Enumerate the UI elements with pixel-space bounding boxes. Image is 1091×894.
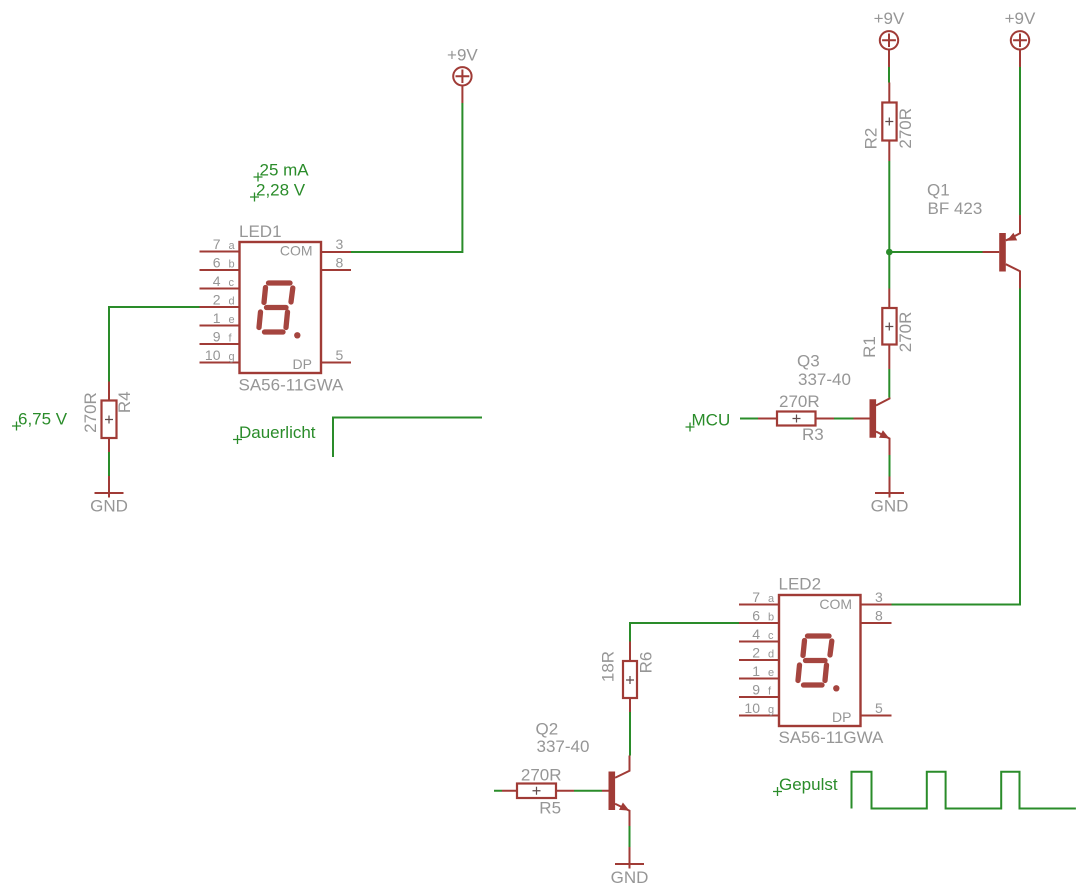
wire R1 to Q3 collector: [888, 369, 890, 398]
svg-text:270R: 270R: [896, 108, 915, 149]
wire Q3 emitter to GND: [889, 455, 891, 477]
svg-text:GND: GND: [611, 868, 649, 887]
svg-text:R1: R1: [860, 336, 879, 358]
svg-text:e: e: [229, 314, 235, 326]
wire R3 to Q3 base: [834, 418, 854, 420]
LED1 pin labels: [205, 236, 344, 363]
svg-text:2: 2: [752, 644, 760, 660]
svg-text:25 mA: 25 mA: [260, 161, 310, 180]
wire LED2 pin b to R6: [630, 623, 739, 642]
svg-text:5: 5: [336, 347, 344, 363]
svg-text:R3: R3: [802, 425, 824, 444]
svg-text:337-40: 337-40: [537, 737, 590, 756]
transistor Q3 337-40 NPN: [797, 352, 890, 456]
svg-text:R6: R6: [637, 652, 656, 674]
svg-text:c: c: [229, 277, 235, 289]
svg-text:R4: R4: [115, 391, 134, 413]
svg-text:18R: 18R: [598, 651, 617, 682]
supply +9V P3 (above Q1): [1011, 31, 1029, 67]
svg-text:2: 2: [213, 291, 221, 307]
wire +9V to Q1 emitter: [1019, 67, 1021, 215]
supply +9V P1 (top left): [453, 67, 471, 103]
svg-text:1: 1: [752, 663, 760, 679]
svg-text:COM: COM: [280, 243, 313, 259]
svg-text:6: 6: [213, 254, 221, 270]
svg-text:R5: R5: [539, 798, 561, 817]
svg-text:7: 7: [752, 589, 760, 605]
svg-text:+9V: +9V: [447, 46, 478, 65]
svg-text:b: b: [768, 611, 774, 623]
svg-text:BF 423: BF 423: [928, 199, 983, 218]
LED2 pin stubs left: [739, 605, 779, 716]
svg-text:DP: DP: [832, 709, 851, 725]
svg-text:Gepulst: Gepulst: [779, 775, 838, 794]
7-seg display LED1: [239, 222, 345, 395]
resistor R5: [494, 765, 574, 817]
LED1 decimal point: [294, 332, 300, 338]
svg-text:g: g: [229, 351, 235, 363]
svg-text:SA56-11GWA: SA56-11GWA: [779, 728, 885, 747]
svg-text:GND: GND: [90, 497, 128, 516]
svg-text:b: b: [229, 258, 235, 270]
wire R5 to Q2 base: [574, 790, 602, 792]
waveform constant: [333, 418, 482, 458]
svg-text:6: 6: [752, 607, 760, 623]
svg-text:c: c: [768, 630, 774, 642]
wire R4 to GND: [108, 452, 110, 476]
svg-text:1: 1: [213, 310, 221, 326]
svg-text:270R: 270R: [896, 312, 915, 353]
resistor R1: [860, 289, 915, 370]
wire Q2 emitter to GND: [629, 826, 631, 847]
LED2 decimal point: [833, 685, 839, 691]
junction: [886, 249, 893, 256]
svg-text:GND: GND: [871, 497, 909, 516]
svg-text:3: 3: [875, 589, 883, 605]
resistor R4: [81, 382, 134, 453]
svg-text:270R: 270R: [521, 765, 562, 784]
ground GND (Q2): [611, 847, 649, 887]
ground GND (Q3): [871, 477, 909, 516]
LED2 pin labels: [744, 589, 883, 716]
svg-text:5: 5: [875, 700, 883, 716]
svg-text:8: 8: [875, 608, 883, 624]
svg-text:7: 7: [213, 236, 221, 252]
7-seg display LED2: [779, 575, 885, 748]
svg-text:2,28 V: 2,28 V: [256, 181, 306, 200]
svg-text:+9V: +9V: [874, 9, 905, 28]
transistor Q2 337-40 NPN: [536, 720, 630, 827]
svg-text:a: a: [229, 240, 236, 252]
ground GND (R4): [90, 476, 128, 516]
svg-text:Q2: Q2: [536, 720, 559, 739]
svg-text:270R: 270R: [779, 392, 820, 411]
svg-text:9: 9: [752, 681, 760, 697]
supply +9V P2 (above R2): [880, 31, 898, 67]
svg-text:8: 8: [336, 255, 344, 271]
svg-text:9: 9: [213, 328, 221, 344]
svg-text:d: d: [229, 295, 235, 307]
LED2 digit 8: [798, 636, 832, 685]
svg-text:4: 4: [213, 273, 221, 289]
wire Q1 collector to LED2 COM: [892, 289, 1021, 605]
wire junction to Q1 base: [889, 251, 982, 253]
transistor Q1 BF423 PNP: [927, 181, 1020, 289]
LED2 pin stubs right: [861, 605, 892, 716]
wire R2 to junction to R1: [888, 161, 890, 289]
LED1 pin stubs left: [200, 252, 240, 363]
svg-text:3: 3: [336, 236, 344, 252]
svg-text:10: 10: [205, 347, 221, 363]
wire +9V to R2: [888, 67, 890, 83]
svg-text:g: g: [768, 704, 774, 716]
LED1 digit 8: [259, 283, 293, 332]
svg-text:6,75 V: 6,75 V: [18, 410, 68, 429]
svg-text:Q3: Q3: [797, 352, 820, 371]
svg-text:4: 4: [752, 626, 760, 642]
svg-text:Q1: Q1: [927, 181, 950, 200]
wire MCU to R3: [740, 418, 758, 420]
wire LED1 pin d to R4: [109, 307, 200, 382]
svg-text:337-40: 337-40: [798, 370, 851, 389]
svg-text:+9V: +9V: [1005, 9, 1036, 28]
svg-text:10: 10: [744, 700, 760, 716]
svg-text:LED2: LED2: [779, 575, 822, 594]
resistor R3: [758, 392, 834, 444]
svg-text:a: a: [768, 593, 775, 605]
svg-text:MCU: MCU: [692, 411, 731, 430]
svg-text:SA56-11GWA: SA56-11GWA: [239, 376, 345, 395]
resistor R6: [598, 642, 655, 713]
svg-text:DP: DP: [293, 356, 312, 372]
svg-text:LED1: LED1: [239, 222, 282, 241]
waveform pulsed: [852, 772, 1076, 809]
LED1 pin stubs right: [321, 252, 351, 363]
svg-text:270R: 270R: [81, 392, 100, 433]
resistor R2: [861, 83, 915, 162]
svg-text:e: e: [768, 667, 774, 679]
svg-text:Dauerlicht: Dauerlicht: [239, 423, 316, 442]
svg-text:d: d: [768, 648, 774, 660]
svg-text:COM: COM: [819, 596, 852, 612]
wire R6 to Q2 collector: [629, 712, 631, 756]
wire +9V to LED1 pin3: [351, 103, 462, 252]
svg-text:R2: R2: [861, 128, 880, 150]
